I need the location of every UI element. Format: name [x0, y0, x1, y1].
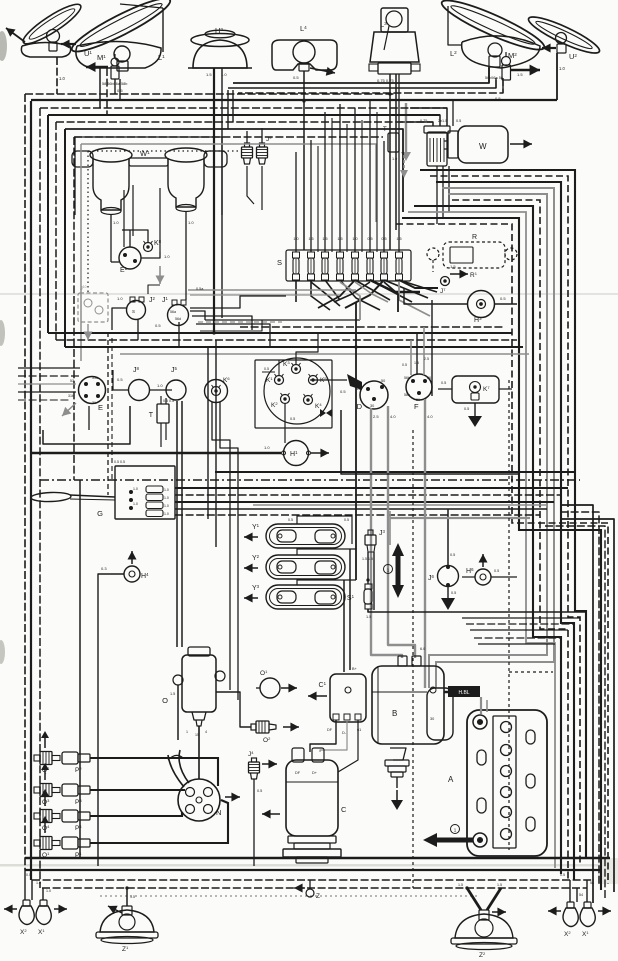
- wire bottom run y896 grey: [100, 895, 480, 897]
- arrow at W: [510, 143, 532, 145]
- wire G band y509: [175, 508, 547, 510]
- relay J8: [129, 380, 150, 401]
- svg-text:0.5: 0.5: [344, 518, 349, 522]
- arrow at Q1: [44, 823, 46, 833]
- svg-text:0.5: 0.5: [264, 367, 269, 371]
- svg-text:DF: DF: [295, 771, 301, 775]
- wire top run 3: [238, 78, 503, 93]
- wire fuse drop x355: [355, 280, 390, 300]
- svg-text:1.0: 1.0: [164, 254, 170, 259]
- switch T: [157, 404, 169, 423]
- svg-text:1.0: 1.0: [36, 881, 41, 885]
- arrow at E: [62, 403, 76, 416]
- relay J2: [127, 301, 146, 320]
- wire left bundle 4: [47, 115, 49, 333]
- relay K7: [452, 376, 499, 403]
- wire top run 12: [88, 150, 240, 152]
- fuse S1: [293, 252, 300, 280]
- svg-text:1.5: 1.5: [450, 264, 456, 269]
- wire left bundle 7 lower: [79, 480, 81, 858]
- wire grey pair from J1: [188, 289, 356, 291]
- svg-text:T: T: [383, 127, 387, 133]
- spark plug Q1: [34, 837, 60, 850]
- arrow at X2 left: [4, 908, 17, 910]
- wire fuse feed x296: [295, 152, 297, 252]
- battery vent slots right: [526, 730, 535, 831]
- wire M1 drops: [114, 79, 116, 94]
- cable connector P1: [62, 837, 90, 849]
- dome lamp Z1: [100, 910, 154, 932]
- wire mid grey feed: [390, 517, 530, 519]
- wire mid band y327: [240, 326, 505, 328]
- svg-text:0.5a: 0.5a: [196, 287, 204, 291]
- svg-text:56d: 56d: [175, 317, 181, 321]
- wire left bundle 6: [64, 129, 66, 347]
- svg-text:0.5: 0.5: [451, 591, 456, 595]
- wire to regulator C1: [349, 549, 351, 670]
- wire fuse feed x311: [310, 140, 312, 252]
- svg-text:1.5: 1.5: [517, 72, 523, 77]
- svg-text:O: O: [162, 696, 168, 705]
- svg-text:0.5: 0.5: [560, 873, 565, 877]
- wire E connectors: [18, 367, 80, 369]
- connector J4: [252, 758, 257, 762]
- arrow at Q4: [44, 796, 46, 806]
- fuse S2: [308, 252, 315, 280]
- wire top run 6: [40, 107, 447, 109]
- wire H2 stubs: [227, 90, 229, 129]
- svg-text:58b: 58b: [404, 393, 410, 397]
- lamp K6: [205, 380, 228, 403]
- horn button H1: [284, 441, 309, 466]
- svg-text:1.0: 1.0: [133, 502, 138, 506]
- arrow at U2: [542, 47, 556, 49]
- svg-text:56b56a 58: 56b56a 58: [485, 76, 503, 80]
- wire fuse feed x384: [383, 141, 385, 252]
- fuse S1: [365, 584, 372, 589]
- wire bottom run y888: [42, 887, 587, 889]
- wire J6 drop arrow: [447, 586, 449, 598]
- connector J3: [368, 530, 373, 535]
- wire right harness y212: [408, 212, 555, 868]
- svg-text:30: 30: [370, 404, 374, 408]
- spark plug Q2: [34, 752, 60, 765]
- wire left bundle 1: [24, 94, 26, 870]
- wire G band y472: [215, 471, 575, 473]
- wire top run 9: [65, 129, 403, 212]
- arrow at Q2: [44, 738, 46, 748]
- wire top run 8: [56, 121, 433, 123]
- arrow at C: [262, 813, 280, 815]
- arrow at Z2: [492, 911, 506, 913]
- wire left bundle 3: [39, 108, 41, 888]
- fuse S7: [381, 252, 388, 280]
- wire X left feeds: [24, 870, 26, 900]
- headlamp U1: [19, 0, 85, 49]
- wire bottom run y870: [25, 869, 601, 871]
- wire M2 drops: [488, 68, 490, 83]
- svg-text:1.5: 1.5: [170, 692, 175, 696]
- wire F drops (grey): [424, 399, 426, 688]
- horn H2: [193, 40, 247, 68]
- tail lamp X1 right: [580, 908, 595, 927]
- wire J4 drop: [253, 779, 255, 866]
- relay J1: [168, 305, 189, 326]
- arrow at H1 right: [311, 452, 329, 454]
- svg-text:1.0: 1.0: [117, 296, 123, 301]
- wire T drops: [160, 423, 162, 447]
- arrow at Q3: [44, 770, 46, 780]
- sender Y3: [266, 585, 345, 609]
- svg-text:53a: 53a: [92, 376, 98, 380]
- wire P2 to distributor: [90, 758, 218, 786]
- wire far-right 3: [560, 519, 614, 892]
- arrow at J4: [262, 763, 277, 765]
- svg-text:0.5: 0.5: [494, 569, 499, 573]
- wire Z2 vee feeds: [467, 888, 481, 910]
- wire E drop: [88, 406, 90, 430]
- svg-text:56: 56: [427, 376, 431, 380]
- wire top run 1: [233, 67, 489, 83]
- wire top run 5: [31, 99, 557, 101]
- wire O top feeds: [176, 401, 178, 647]
- symbol bowtie: [320, 409, 326, 417]
- wire top run 10: [74, 136, 383, 138]
- wire W1 drops: [110, 214, 112, 262]
- svg-text:2.5: 2.5: [373, 414, 379, 419]
- svg-text:1.0: 1.0: [157, 383, 163, 388]
- arrow at U1: [6, 28, 25, 42]
- wire fuse drop x340: [340, 280, 380, 310]
- wire K7 drop and arrow: [474, 403, 476, 416]
- starter B pinion: [390, 748, 406, 760]
- wire G band y515 dashed: [175, 514, 540, 516]
- wire W drops: [436, 166, 438, 224]
- fuse S8: [396, 252, 403, 280]
- wire mid band y333: [48, 332, 512, 334]
- wire G band y488: [175, 487, 568, 489]
- svg-text:1.5: 1.5: [206, 72, 212, 77]
- battery feed arrow 1: [396, 552, 401, 589]
- generator C: [286, 760, 338, 836]
- switch E1 with lamp K8: [119, 247, 141, 269]
- wire D drops (grey): [371, 408, 402, 658]
- wire J9 drops: [247, 166, 254, 204]
- wire P3 to distributor: [90, 789, 185, 791]
- cable connector P4: [62, 810, 90, 822]
- wire fan diagonals: [370, 280, 420, 292]
- wire fuse feed x340: [339, 104, 341, 252]
- wire top run 7: [48, 114, 440, 116]
- horn H3: [468, 291, 495, 318]
- svg-text:0.5: 0.5: [464, 407, 469, 411]
- svg-text:54: 54: [579, 893, 583, 897]
- wire G band y502: [175, 501, 554, 503]
- wire G band y505 grey: [253, 504, 547, 506]
- svg-text:0.5: 0.5: [290, 417, 295, 421]
- svg-text:15: 15: [357, 387, 361, 391]
- wire right harness y206: [414, 206, 561, 874]
- battery cell plugs center: [501, 722, 512, 840]
- starter B: [372, 666, 444, 744]
- svg-text:1.0: 1.0: [164, 488, 169, 492]
- wire P4 to distributor: [90, 812, 182, 816]
- svg-text:1.0: 1.0: [164, 512, 169, 516]
- instrument cluster frame: [255, 360, 332, 428]
- arrow at C1: [308, 695, 327, 697]
- turn signal switch G: [31, 492, 71, 502]
- wire K7 right: [499, 388, 512, 390]
- connector wedge: [347, 374, 362, 390]
- distributor N: [178, 779, 220, 821]
- wire fuse feed x399: [398, 74, 400, 252]
- spark plug Q4: [34, 810, 60, 823]
- svg-text:0.5: 0.5: [450, 553, 455, 557]
- wire lower-right feeders: [462, 617, 580, 619]
- wire H6 links: [462, 576, 475, 578]
- junction dots: [302, 99, 305, 102]
- battery ground arrow: [437, 838, 473, 843]
- wire relay to fuse connectors: [190, 296, 286, 308]
- svg-text:0.5: 0.5: [293, 75, 299, 80]
- switch H4: [124, 566, 140, 582]
- connector V4: [146, 510, 163, 517]
- svg-text:6.0: 6.0: [420, 647, 425, 651]
- wire right harness y188 (grey to solenoid): [436, 188, 554, 688]
- svg-text:1.0: 1.0: [392, 157, 397, 161]
- wire Y spine: [355, 302, 357, 580]
- wire right harness y200: [452, 200, 568, 880]
- arrow at N: [225, 796, 240, 798]
- cable connector P3: [62, 784, 90, 796]
- wire H3 left: [404, 288, 467, 304]
- sender Y1: [266, 524, 345, 548]
- svg-text:D+: D+: [312, 771, 318, 775]
- svg-text:1.0: 1.0: [59, 76, 65, 81]
- grey arrow below T: [403, 155, 405, 170]
- beacon Z: [306, 889, 314, 897]
- svg-text:0.3: 0.3: [101, 566, 107, 571]
- svg-text:0.5: 0.5: [340, 389, 346, 394]
- connector V1: [146, 486, 163, 493]
- svg-text:0.5: 0.5: [117, 377, 123, 382]
- wire U2 feed: [556, 53, 558, 100]
- svg-text:D: D: [357, 402, 363, 411]
- svg-text:1.5: 1.5: [458, 883, 463, 887]
- wire fuse feed x370: [369, 100, 371, 252]
- connector J9: [245, 143, 250, 147]
- dimmer relay F: [406, 374, 432, 400]
- svg-text:56b: 56b: [404, 376, 410, 380]
- regulator C1: [330, 674, 366, 722]
- arrow at Z1: [108, 906, 122, 913]
- warning lamp K4: [304, 396, 313, 405]
- svg-text:4.0: 4.0: [427, 414, 433, 419]
- wire L3 drops: [389, 74, 391, 250]
- wire fuse drop x399: [399, 280, 437, 292]
- svg-text:0.5: 0.5: [456, 119, 461, 123]
- wire left bundle 7: [73, 137, 75, 480]
- svg-text:1.0: 1.0: [133, 487, 138, 491]
- fuse S4: [337, 252, 344, 280]
- svg-text:4.0: 4.0: [390, 414, 396, 419]
- svg-text:0.5: 0.5: [155, 323, 161, 328]
- svg-text:0.5: 0.5: [441, 381, 446, 385]
- wire fuse drop x370: [370, 280, 412, 302]
- tail lamp X2 right: [563, 908, 578, 927]
- svg-text:0.5 0.5: 0.5 0.5: [163, 399, 174, 403]
- washer bottles W1 frame: [75, 137, 222, 215]
- tail lamp X1 left: [36, 906, 51, 925]
- wire S1 drop: [368, 609, 586, 612]
- wire far-right 1: [560, 505, 593, 903]
- svg-text:W: W: [479, 142, 487, 151]
- svg-text:1.5: 1.5: [414, 361, 419, 365]
- svg-text:31: 31: [92, 401, 96, 405]
- cable connector P2: [62, 752, 90, 764]
- wire far-right 4: [545, 526, 605, 898]
- dimmer M2: [502, 57, 511, 66]
- wire right harness y218: [402, 218, 601, 890]
- connector V3: [146, 502, 163, 509]
- wire fuse feed x362: [361, 120, 363, 252]
- wire far-right 2: [560, 512, 599, 886]
- wire Y2 bracket: [297, 549, 356, 555]
- wire J9 feeds: [246, 131, 248, 143]
- ignition starter switch D: [360, 381, 388, 409]
- wire D-F frame: [341, 410, 520, 474]
- wire horn H2 drops: [213, 68, 215, 333]
- wire E1 feeds: [123, 190, 125, 247]
- wire O left drop: [177, 685, 179, 740]
- battery A: [467, 710, 547, 856]
- connector T on semaphore wire: [388, 133, 399, 152]
- wire P1 to distributor: [90, 800, 228, 843]
- wire U1 feed: [56, 57, 58, 94]
- wire left bundle 5: [55, 122, 57, 340]
- wire H4 left-down: [98, 574, 124, 866]
- wire mid band y340: [56, 339, 517, 341]
- wire R drop: [432, 260, 434, 272]
- wire right harness y194 (grey to solenoid): [429, 194, 547, 688]
- wire fuse feed x332: [331, 118, 333, 252]
- condenser O1: [260, 678, 280, 698]
- svg-text:1.0: 1.0: [113, 220, 119, 225]
- relay J10 (grey): [78, 293, 108, 322]
- svg-text:G: G: [97, 509, 103, 518]
- ignition coil O: [182, 655, 216, 712]
- wire fuse drop x325: [325, 280, 340, 300]
- arrow at X1 right: [598, 910, 611, 912]
- warning lamp K2: [281, 395, 290, 404]
- wire H3 right: [495, 303, 517, 305]
- svg-text:F: F: [414, 402, 419, 411]
- wire O center to N: [198, 726, 200, 779]
- svg-text:0.5 0.5: 0.5 0.5: [114, 460, 125, 464]
- svg-text:1.0: 1.0: [264, 445, 270, 450]
- headlamp U2: [525, 11, 602, 58]
- svg-text:Z: Z: [316, 893, 320, 900]
- wire cluster links: [296, 333, 318, 364]
- radio suppressor R (dashed): [427, 248, 439, 260]
- svg-text:H.BL: H.BL: [458, 690, 469, 696]
- wire fuse drop x311: [311, 280, 330, 310]
- svg-text:E: E: [98, 403, 103, 412]
- wire dashed enclosure: [412, 430, 414, 888]
- svg-text:0.5: 0.5: [257, 789, 262, 793]
- wire right harness y224: [396, 224, 608, 884]
- svg-text:T: T: [149, 412, 154, 419]
- generator C pulley: [288, 836, 336, 843]
- wire E1 links: [111, 261, 119, 263]
- connector J6: [438, 566, 459, 587]
- svg-text:1.0: 1.0: [46, 889, 51, 893]
- connector V2: [146, 494, 163, 501]
- wire battery positive feed: [480, 697, 482, 714]
- wire wedge left: [310, 379, 347, 381]
- connector J7 and arrow R1: [441, 277, 450, 286]
- fuse S5: [352, 252, 359, 280]
- wire fuse feed x377: [376, 112, 378, 252]
- wire Z1 feed: [126, 888, 128, 906]
- arrow at U1 bulb: [61, 43, 76, 45]
- dome lamp Z2: [455, 914, 513, 938]
- headlamp L1: [67, 0, 174, 59]
- wire dashed drops x108: [107, 332, 109, 495]
- warning lamp K3: [292, 365, 301, 374]
- wire L4 drop: [303, 71, 305, 250]
- svg-text:N: N: [216, 808, 221, 817]
- fuse S6: [367, 252, 374, 280]
- wire top run 2: [228, 78, 496, 88]
- switch H6: [475, 569, 491, 585]
- svg-text:1.5: 1.5: [497, 883, 502, 887]
- wire W feeds: [410, 108, 447, 126]
- wire top run 11 (grey): [81, 144, 376, 222]
- svg-text:1.0: 1.0: [164, 504, 169, 508]
- wire fuse feed x325: [324, 112, 326, 252]
- wire G band y495 dashed: [175, 494, 561, 496]
- headlamp L2: [438, 0, 548, 57]
- svg-text:DF: DF: [327, 728, 333, 732]
- svg-text:B+: B+: [352, 667, 358, 671]
- wire Y1 bracket: [297, 516, 352, 524]
- svg-text:A: A: [448, 775, 454, 784]
- wire fuse drop x384: [384, 280, 428, 298]
- wire U loop to J8: [43, 406, 130, 444]
- arrow at X2 right: [548, 910, 561, 912]
- wire fuse feed x355: [354, 108, 356, 252]
- tail lamp X2 left: [19, 906, 34, 925]
- svg-text:S: S: [132, 309, 135, 314]
- wire L1 feeds: [99, 68, 101, 108]
- arrow at X1 left: [54, 908, 67, 910]
- battery cable to starter: [448, 686, 480, 697]
- wire right harness y182: [436, 182, 574, 880]
- svg-text:0.5: 0.5: [500, 296, 506, 301]
- svg-text:R: R: [472, 234, 477, 241]
- wire bottom run y880: [32, 879, 594, 881]
- svg-text:B: B: [392, 709, 397, 718]
- wire J6 feed: [447, 509, 449, 566]
- dimmer M1: [86, 66, 108, 69]
- relay J5: [166, 380, 186, 400]
- wire J8-J5 link: [150, 389, 172, 391]
- wire H1 left: [31, 452, 281, 454]
- svg-text:30: 30: [430, 717, 434, 721]
- warning lamp K5: [309, 376, 318, 385]
- wire Y3 bracket: [297, 580, 356, 585]
